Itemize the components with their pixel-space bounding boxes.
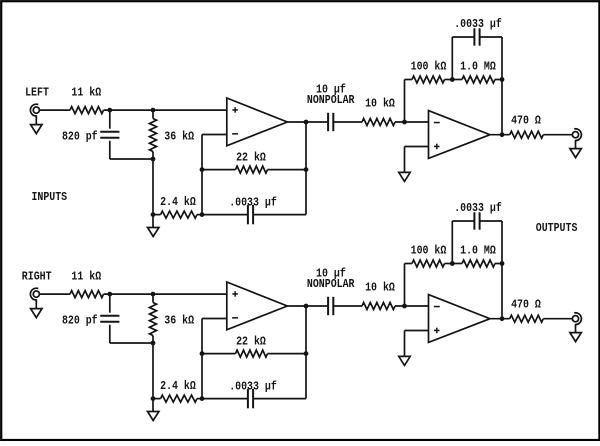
- label 22 kΩ: [236, 150, 266, 164]
- wire node C to node D: [152, 159, 154, 215]
- ground at JL2: [570, 141, 581, 158]
- node J junction: [450, 261, 455, 266]
- resistor R 11 kΩ: [70, 107, 104, 114]
- label 11 kΩ: [71, 270, 101, 284]
- resistor R 22 kΩ: [202, 350, 306, 357]
- svg-text:.0033 μf: .0033 μf: [229, 195, 277, 209]
- resistor R 36 kΩ: [150, 110, 157, 159]
- capacitor C .0033 μf feedback: [452, 212, 502, 263]
- svg-text:1.0 MΩ: 1.0 MΩ: [460, 59, 496, 73]
- node E junction: [200, 212, 205, 217]
- svg-text:100 kΩ: 100 kΩ: [411, 243, 447, 257]
- wire op-amp 2 + input to ground: [405, 147, 429, 173]
- svg-text:470 Ω: 470 Ω: [511, 113, 541, 127]
- label 470 Ω: [511, 113, 541, 127]
- svg-text:INPUTS: INPUTS: [31, 190, 67, 204]
- input jack JR1: [30, 288, 39, 300]
- wire node K to output node: [501, 80, 503, 135]
- label 100 kΩ: [411, 59, 447, 73]
- node K junction: [500, 77, 505, 82]
- node H junction: [304, 304, 309, 309]
- svg-text:1.0 MΩ: 1.0 MΩ: [460, 243, 496, 257]
- wire node K to output node: [501, 264, 503, 319]
- node D junction: [151, 396, 156, 401]
- resistor R 36 kΩ: [150, 294, 157, 343]
- wire op-amp 2 output: [490, 318, 510, 320]
- label .0033 μf: [229, 195, 277, 209]
- label NONPOLAR: [307, 93, 355, 107]
- LEFT channel: [30, 17, 581, 236]
- label 1.0 MΩ: [460, 243, 496, 257]
- wire op-amp 2 output: [490, 134, 510, 136]
- wire feedback vertical right: [305, 122, 307, 215]
- label .0033 μf feedback: [454, 17, 502, 31]
- wire C 820pf to node C: [110, 158, 153, 160]
- node I junction: [402, 304, 407, 309]
- label 820 pf: [62, 130, 98, 144]
- wire feedback vertical left: [404, 264, 406, 307]
- node C junction: [151, 157, 156, 162]
- node B junction: [151, 292, 156, 297]
- svg-text:.0033 μf: .0033 μf: [229, 379, 277, 393]
- wire C 10uf to R 10k: [333, 121, 362, 123]
- wire C 10uf to R 10k: [333, 305, 362, 307]
- node J junction: [450, 77, 455, 82]
- svg-text:RIGHT: RIGHT: [22, 270, 52, 284]
- resistor R 100 kΩ: [405, 76, 453, 83]
- wire inverting node vertical: [201, 135, 203, 215]
- wire C 820pf to node C: [110, 342, 153, 344]
- ground at op-amp 2: [399, 172, 410, 181]
- node D junction: [151, 212, 156, 217]
- wire R 11k to op-amp + input: [104, 293, 227, 295]
- resistor R 10 kΩ: [362, 119, 395, 126]
- node K junction: [500, 261, 505, 266]
- wire R 10k to op-amp 2: [395, 305, 429, 307]
- label 820 pf: [62, 314, 98, 328]
- label 470 Ω: [511, 297, 541, 311]
- svg-text:22 kΩ: 22 kΩ: [236, 150, 266, 164]
- ground at op-amp 2: [399, 356, 410, 365]
- op-amp UR2: [429, 295, 491, 343]
- op-amp UR1: [227, 282, 287, 330]
- ground at JL1: [31, 116, 42, 134]
- resistor R 22 kΩ: [202, 166, 306, 173]
- label 11 kΩ: [71, 86, 101, 100]
- resistor R 470 Ω: [510, 315, 544, 322]
- wire feedback vertical right: [305, 306, 307, 399]
- node B junction: [151, 108, 156, 113]
- capacitor C 10 μf nonpolar: [328, 297, 333, 315]
- wire R 470 to output jack: [543, 318, 572, 320]
- node A junction: [107, 292, 112, 297]
- resistor R 470 Ω: [510, 131, 544, 138]
- node F junction: [200, 167, 205, 172]
- label 2.4 kΩ: [160, 195, 196, 209]
- svg-text:OUTPUTS: OUTPUTS: [536, 221, 578, 235]
- node G junction: [304, 167, 309, 172]
- capacitor C 820 pf: [100, 294, 119, 343]
- node L junction: [500, 316, 505, 321]
- label 10 μf: [316, 267, 346, 281]
- output jack JL2: [572, 129, 581, 141]
- svg-text:22 kΩ: 22 kΩ: [236, 334, 266, 348]
- capacitor C .0033 μf: [202, 389, 306, 408]
- resistor R 1.0 MΩ: [452, 260, 502, 267]
- svg-text:100 kΩ: 100 kΩ: [411, 59, 447, 73]
- wire op-amp output: [287, 305, 328, 307]
- svg-text:36 kΩ: 36 kΩ: [164, 314, 194, 328]
- label .0033 μf: [229, 379, 277, 393]
- resistor R 10 kΩ: [362, 303, 395, 310]
- node H junction: [304, 120, 309, 125]
- resistor R 2.4 kΩ: [153, 395, 202, 402]
- label 2.4 kΩ: [160, 379, 196, 393]
- node I junction: [402, 120, 407, 125]
- wire R 10k to op-amp 2: [395, 121, 429, 123]
- wire jack to R 11k: [39, 293, 70, 295]
- wire inverting node vertical: [201, 319, 203, 399]
- wire feedback vertical left: [404, 80, 406, 123]
- svg-text:NONPOLAR: NONPOLAR: [307, 93, 355, 107]
- wire to op-amp - input: [202, 134, 227, 136]
- svg-text:.0033 μf: .0033 μf: [454, 17, 502, 31]
- capacitor C 10 μf nonpolar: [328, 113, 333, 131]
- label 36 kΩ: [164, 130, 194, 144]
- wire op-amp 2 + input to ground: [405, 331, 429, 357]
- resistor R 1.0 MΩ: [452, 76, 502, 83]
- ground at JR2: [570, 325, 581, 342]
- capacitor C .0033 μf feedback: [452, 28, 502, 79]
- wire node C to node D: [152, 343, 154, 399]
- svg-text:LEFT: LEFT: [25, 86, 49, 100]
- node C junction: [151, 341, 156, 346]
- node L junction: [500, 132, 505, 137]
- svg-text:NONPOLAR: NONPOLAR: [307, 277, 355, 291]
- svg-text:2.4 kΩ: 2.4 kΩ: [160, 195, 196, 209]
- svg-text:36 kΩ: 36 kΩ: [164, 130, 194, 144]
- wire R 11k to op-amp + input: [104, 109, 227, 111]
- resistor R 11 kΩ: [70, 291, 104, 298]
- ground at node D: [148, 215, 159, 237]
- label 100 kΩ: [411, 243, 447, 257]
- svg-text:2.4 kΩ: 2.4 kΩ: [160, 379, 196, 393]
- svg-text:11 kΩ: 11 kΩ: [71, 270, 101, 284]
- node A junction: [107, 108, 112, 113]
- label 10 μf: [316, 83, 346, 97]
- ground at node D: [148, 399, 159, 421]
- wire jack to R 11k: [39, 109, 70, 111]
- input jack JL1: [30, 104, 39, 116]
- svg-text:470 Ω: 470 Ω: [511, 297, 541, 311]
- output jack JR2: [572, 313, 581, 325]
- capacitor C 820 pf: [100, 110, 119, 159]
- svg-text:10 kΩ: 10 kΩ: [365, 96, 395, 110]
- resistor R 2.4 kΩ: [153, 211, 202, 218]
- svg-text:820 pf: 820 pf: [62, 130, 98, 144]
- op-amp UL1: [227, 98, 287, 146]
- wire R 470 to output jack: [543, 134, 572, 136]
- svg-text:.0033 μf: .0033 μf: [454, 201, 502, 215]
- label 10 kΩ: [365, 280, 395, 294]
- ground at JR1: [31, 300, 42, 318]
- node G junction: [304, 351, 309, 356]
- RIGHT channel: [30, 201, 581, 420]
- svg-text:10 kΩ: 10 kΩ: [365, 280, 395, 294]
- label 1.0 MΩ: [460, 59, 496, 73]
- svg-text:820 pf: 820 pf: [62, 314, 98, 328]
- wire to op-amp - input: [202, 318, 227, 320]
- op-amp UL2: [429, 111, 491, 159]
- label NONPOLAR: [307, 277, 355, 291]
- label .0033 μf feedback: [454, 201, 502, 215]
- svg-text:11 kΩ: 11 kΩ: [71, 86, 101, 100]
- node F junction: [200, 351, 205, 356]
- wire op-amp output: [287, 121, 328, 123]
- label 36 kΩ: [164, 314, 194, 328]
- label 22 kΩ: [236, 334, 266, 348]
- resistor R 100 kΩ: [405, 260, 453, 267]
- label 10 kΩ: [365, 96, 395, 110]
- node E junction: [200, 396, 205, 401]
- capacitor C .0033 μf: [202, 205, 306, 224]
